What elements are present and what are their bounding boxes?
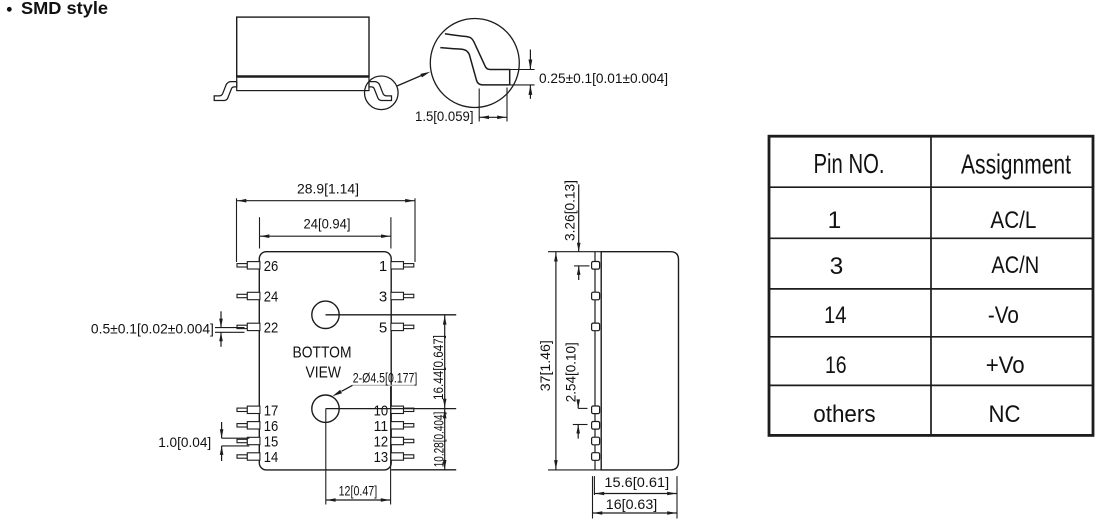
pin 5 lead (391, 323, 404, 330)
svg-text:1.5[0.059]: 1.5[0.059] (415, 109, 474, 124)
hole diameter leader (342, 385, 353, 391)
detail magnified circle (430, 19, 519, 108)
foot length dimension line 1.5 (479, 116, 507, 118)
svg-text:AC/N: AC/N (991, 252, 1039, 279)
svg-text:16: 16 (825, 352, 847, 379)
dimension 3.26 (578, 184, 580, 251)
table row line (769, 186, 1093, 188)
pin 16 lead (237, 424, 247, 427)
hole center reference line upper (326, 314, 457, 316)
dimension line 12 (326, 499, 391, 501)
pin 15 lead (237, 439, 247, 442)
svg-text:14: 14 (264, 449, 279, 466)
svg-text:3.26[0.13]: 3.26[0.13] (562, 180, 577, 241)
dimension 0.5 arrows (220, 311, 222, 327)
svg-text:0.5±0.1[0.02±0.004]: 0.5±0.1[0.02±0.004] (91, 322, 214, 337)
bottom edge extension line (548, 469, 601, 471)
dimension 28.9 extension lines (236, 198, 238, 262)
side pin (592, 262, 600, 270)
svg-text:10: 10 (374, 402, 389, 419)
pin 14 lead (237, 455, 247, 458)
table row line (769, 336, 1093, 338)
dimension line 24 (260, 235, 391, 237)
pin 10 lead (391, 406, 404, 413)
right gull-wing lead (369, 82, 392, 101)
svg-text:24: 24 (264, 289, 279, 306)
svg-text:28.9[1.14]: 28.9[1.14] (297, 182, 359, 197)
svg-text:22: 22 (264, 320, 279, 337)
svg-text:16[0.63]: 16[0.63] (606, 497, 657, 512)
svg-text:12: 12 (374, 434, 389, 451)
svg-text:3: 3 (830, 253, 844, 280)
svg-text:24[0.94]: 24[0.94] (304, 217, 351, 232)
package base strip (237, 76, 369, 90)
svg-text:17: 17 (264, 402, 279, 419)
dimension line 16 (593, 512, 678, 514)
svg-text:15.6[0.61]: 15.6[0.61] (604, 475, 669, 490)
pin 3 lead (391, 292, 404, 299)
svg-text:1: 1 (828, 207, 842, 234)
svg-text:37[1.46]: 37[1.46] (538, 340, 553, 391)
svg-text:+Vo: +Vo (986, 352, 1025, 379)
dimension 12 extension lines (325, 409, 327, 504)
svg-text:15: 15 (264, 434, 279, 451)
top edge extension line (548, 251, 601, 253)
table row line (769, 237, 1093, 239)
pin 26 lead (237, 264, 247, 267)
pin 17 lead (237, 408, 247, 411)
svg-text:Assignment: Assignment (961, 148, 1071, 179)
lead profile lower line (440, 48, 509, 85)
pin 11 lead (391, 422, 404, 429)
svg-text:5: 5 (379, 320, 387, 337)
svg-text:14: 14 (824, 302, 847, 329)
dimension 0.5 lead thickness ticks (215, 327, 245, 329)
lower mounting hole (312, 395, 339, 422)
svg-text:2-Ø4.5[0.177]: 2-Ø4.5[0.177] (353, 370, 418, 385)
svg-text:0.25±0.1[0.01±0.004]: 0.25±0.1[0.01±0.004] (539, 71, 668, 86)
dimension 1.0 pad width ticks (222, 437, 250, 439)
svg-text:13: 13 (374, 449, 389, 466)
side pin (592, 453, 600, 461)
pin assignment table outer border (769, 136, 1093, 435)
svg-text:16: 16 (264, 418, 279, 435)
lead thickness dimension arrows 0.25 (529, 50, 531, 70)
side pin (592, 323, 600, 331)
svg-text:2.54[0.10]: 2.54[0.10] (564, 342, 579, 402)
side pin (592, 292, 600, 300)
dimension 24 extension lines (259, 217, 261, 248)
package side view body (237, 17, 369, 76)
dimension 2.54 (577, 403, 579, 409)
pin 22 lead (237, 325, 247, 328)
lead profile upper line (445, 34, 510, 85)
pin 12 lead (391, 437, 404, 444)
pin 13 lead (391, 453, 404, 460)
svg-text:BOTTOM: BOTTOM (293, 345, 352, 362)
svg-text:SMD style: SMD style (21, 0, 108, 18)
pin 1 lead (391, 262, 404, 269)
detail callout small circle (365, 76, 399, 110)
side view body (601, 252, 678, 470)
svg-text:others: others (813, 401, 875, 428)
lead thickness extension ticks (510, 69, 535, 71)
svg-text:1: 1 (379, 258, 387, 275)
bottom dims extension lines (592, 476, 594, 518)
upper mounting hole (312, 301, 339, 328)
svg-text:VIEW: VIEW (305, 365, 341, 382)
table row line (769, 384, 1093, 386)
side pin (592, 422, 600, 430)
svg-text:3: 3 (379, 289, 387, 306)
bottom view body (259, 252, 391, 470)
callout leader arrow (397, 75, 423, 86)
dimension line 37 (555, 252, 557, 470)
svg-text:11: 11 (374, 418, 389, 435)
table column divider (930, 136, 932, 435)
left gull-wing lead (214, 82, 237, 101)
svg-text:26: 26 (264, 258, 279, 275)
dimension line 28.9 (237, 200, 416, 202)
svg-text:-Vo: -Vo (988, 302, 1019, 329)
pin rail line (594, 252, 596, 470)
svg-text:12[0.47]: 12[0.47] (339, 483, 378, 498)
svg-text:Pin NO.: Pin NO. (814, 148, 885, 179)
body bottom reference extension (391, 469, 456, 471)
foot length extension lines (478, 89, 480, 122)
svg-text:10.28[0.404]: 10.28[0.404] (432, 412, 447, 468)
svg-text:AC/L: AC/L (990, 207, 1036, 234)
svg-text:1.0[0.04]: 1.0[0.04] (158, 435, 211, 450)
bullet (7, 7, 12, 12)
leader underline (gray) (353, 384, 416, 386)
table row line (769, 288, 1093, 290)
hole center reference line lower (326, 408, 457, 410)
side pin (592, 406, 600, 414)
side pin (592, 437, 600, 445)
dimension 1.0 arrows (221, 422, 223, 438)
dimension line 16.44 (444, 315, 446, 409)
dimension line 15.6 (594, 493, 677, 495)
svg-text:16.44[0.647]: 16.44[0.647] (431, 335, 446, 400)
svg-text:NC: NC (989, 401, 1021, 428)
dimension line 10.28 (444, 409, 446, 470)
pin 24 lead (237, 294, 247, 297)
